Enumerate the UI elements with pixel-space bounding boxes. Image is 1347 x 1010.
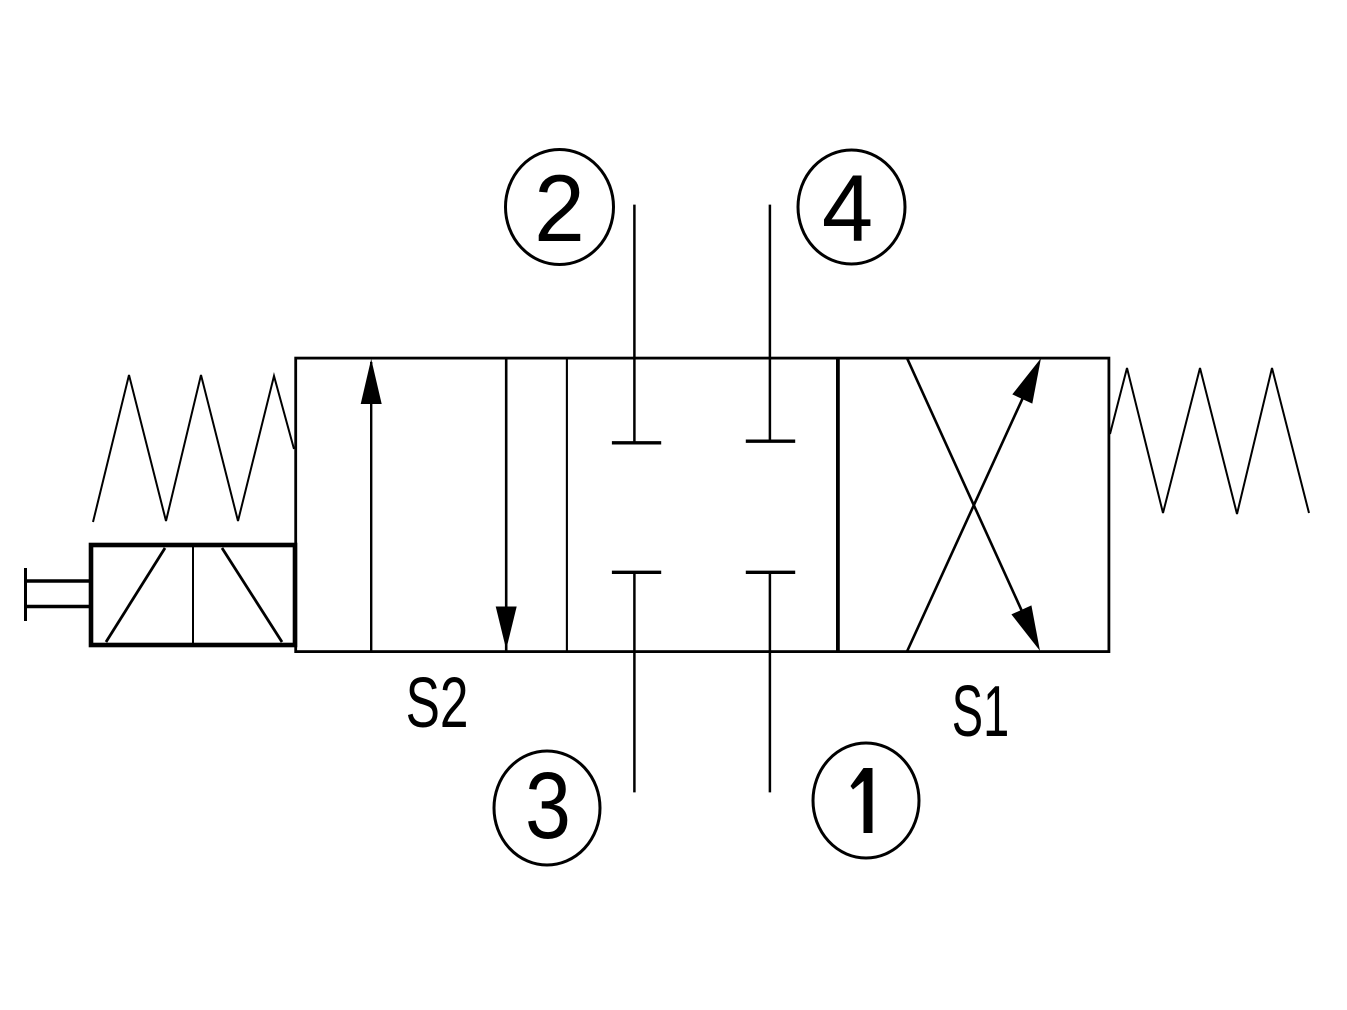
svg-text:3: 3 — [525, 752, 571, 859]
svg-text:2: 2 — [534, 155, 585, 261]
svg-text:4: 4 — [822, 155, 873, 262]
svg-text:S1: S1 — [952, 671, 1009, 752]
svg-text:S2: S2 — [406, 664, 469, 743]
